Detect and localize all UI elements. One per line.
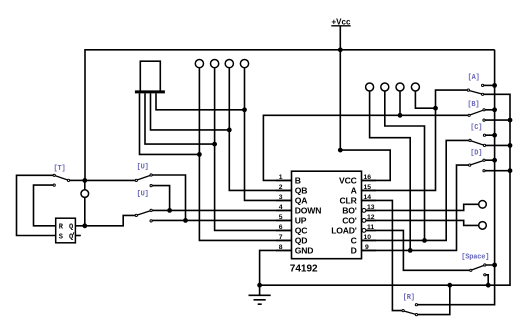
switch SU1 [U] top	[85, 174, 186, 221]
svg-text:QD: QD	[295, 235, 308, 245]
svg-text:2: 2	[279, 184, 283, 191]
chip U1 left pin numbers	[279, 174, 283, 251]
wire pin9 D net to switch SD	[362, 165, 469, 250]
node junction SA-bus1	[492, 83, 497, 88]
svg-text:CLR: CLR	[340, 195, 358, 205]
chip U1 74192 body	[292, 171, 362, 259]
switch ST [T]	[53, 174, 85, 186]
svg-text:[B]: [B]	[467, 101, 479, 109]
node junction rail/ST/SU1	[82, 178, 87, 183]
svg-text:[U]: [U]	[137, 164, 149, 172]
wire probe P3 top	[84, 180, 86, 189]
wire latch Q' stub	[75, 235, 80, 237]
wire lamp L2 to pin6 QC	[215, 68, 292, 231]
svg-text:4: 4	[279, 204, 283, 211]
svg-text:QC: QC	[295, 225, 308, 235]
svg-text:[Space]: [Space]	[461, 253, 489, 261]
wire RN1 pin4 to lamp L4 net	[156, 93, 245, 109]
wire RN1 pin1 to lamp L1 net	[140, 93, 200, 154]
wire indicator I2 to C net	[385, 91, 425, 240]
node junction QC net	[212, 142, 217, 147]
node junction SD-bus1	[492, 158, 497, 163]
svg-text:Q: Q	[69, 234, 73, 242]
svg-text:B: B	[295, 175, 301, 185]
wire +Vcc stem	[339, 26, 341, 50]
chip U1 right pin numbers	[364, 174, 375, 251]
node junction QB net	[227, 127, 232, 132]
node junction DOWN net	[167, 208, 172, 213]
svg-text:1: 1	[279, 174, 283, 181]
node junction B net / indicator I3	[398, 113, 403, 118]
chip U1 left labels	[295, 175, 321, 255]
svg-text:CO': CO'	[342, 215, 356, 225]
svg-text:VCC: VCC	[339, 175, 357, 185]
svg-text:[C]: [C]	[470, 124, 482, 132]
wire ST upper throw to latch S	[17, 175, 56, 235]
wire pin11 LOAD' net to switch SSpace	[366, 230, 469, 270]
svg-text:QA: QA	[295, 195, 308, 205]
svg-text:3: 3	[279, 194, 283, 201]
svg-text:[A]: [A]	[468, 74, 480, 82]
switch SU2 [U] bottom	[135, 209, 152, 222]
wire top +Vcc rail	[85, 50, 495, 181]
indicator I4 (A)	[411, 83, 419, 91]
wire indicator I3 to B net	[399, 91, 401, 115]
pin 11 bubble	[362, 229, 366, 233]
svg-text:74192: 74192	[290, 264, 318, 275]
pin 13 bubble	[362, 209, 366, 213]
node junction QA net	[242, 107, 247, 112]
svg-text:C: C	[351, 235, 357, 245]
svg-text:D: D	[351, 245, 357, 255]
wire pin4 DOWN net	[152, 209, 291, 211]
wire lamp L3 to pin2 QB	[229, 68, 291, 190]
svg-text:[U]: [U]	[137, 190, 149, 198]
svg-text:S: S	[59, 234, 63, 242]
switch SSpace [Space]	[470, 264, 495, 285]
node junction A net / indicator I4	[433, 106, 438, 111]
svg-text:5: 5	[279, 214, 283, 221]
svg-text:LOAD': LOAD'	[331, 225, 357, 235]
wire RN1 pin2 to lamp L2 net	[145, 93, 215, 144]
probe P1 BO'	[479, 201, 487, 209]
svg-text:7: 7	[279, 234, 283, 241]
node junction GND tee	[257, 283, 262, 288]
node junction UP net	[183, 218, 188, 223]
wire Vcc drop to pin16	[340, 50, 390, 181]
wire probe P3 bottom to Q	[84, 198, 86, 226]
wire ST lower throw to latch R	[34, 185, 56, 226]
indicator I2 (C)	[381, 83, 389, 91]
lamp L1	[195, 60, 203, 68]
svg-text:[T]: [T]	[54, 165, 66, 173]
chip U1 right pin stubs	[362, 180, 377, 250]
svg-text:UP: UP	[295, 215, 307, 225]
svg-text:[R]: [R]	[403, 294, 415, 302]
node junction Space-bus1	[492, 263, 497, 268]
switch SD [D]	[469, 159, 510, 172]
node junction SB-bus2	[508, 118, 513, 123]
svg-text:DOWN: DOWN	[295, 205, 321, 215]
chip U1 right labels	[331, 175, 357, 255]
wire pin8 GND net to ground and bus2	[260, 94, 510, 285]
wire lamp L1 to pin7 QD	[199, 68, 291, 241]
wire bus1 Vcc right vertical	[418, 50, 495, 305]
pin 12 bubble	[362, 219, 366, 223]
ground	[249, 285, 271, 304]
node junction D net / indicator I1	[408, 248, 413, 253]
lamp L4	[240, 60, 248, 68]
svg-text:BO': BO'	[342, 205, 356, 215]
node junction QD net	[197, 152, 202, 157]
node junction Q net	[82, 223, 87, 228]
power +Vcc symbol	[331, 18, 351, 27]
indicator I3 (B)	[396, 83, 404, 91]
node junction SD-bus2	[508, 168, 513, 173]
wire pin10 C net to switch SC	[362, 140, 469, 240]
wire pin14 CLR net to switch SR	[362, 200, 402, 310]
svg-text:[D]: [D]	[470, 149, 482, 157]
svg-text:Q: Q	[69, 223, 73, 231]
switch SA [A]	[467, 84, 494, 95]
wire pin5 UP net	[152, 219, 291, 221]
switch SR [R]	[402, 285, 450, 316]
node corner dot at (340,150)	[338, 148, 343, 153]
wire pin13 BO' to probe P1	[366, 204, 478, 210]
wire lamp L4 to pin3 QA	[245, 68, 292, 201]
lamp L2	[211, 60, 219, 68]
svg-text:16: 16	[364, 174, 372, 181]
node junction SC-bus2	[508, 143, 513, 148]
indicator I1 (D)	[366, 83, 374, 91]
svg-text:6: 6	[279, 224, 283, 231]
wire pin15 A net to switch SA	[362, 90, 468, 190]
lamp L3	[225, 60, 233, 68]
wire indicator I1 to D net	[370, 91, 411, 250]
chip U1 left pin stubs 1-8	[276, 180, 292, 250]
probe P2 CO'	[479, 222, 487, 230]
node junction SC-bus1	[492, 133, 497, 138]
node junction Space-gnd	[486, 283, 491, 288]
wire indicator I4 to A net	[415, 91, 435, 108]
wire latch Q output to SU2 common	[75, 215, 135, 225]
svg-text:A: A	[351, 185, 357, 195]
node junction Vcc-rail	[338, 47, 343, 52]
wire pin12 CO' to probe P2	[366, 220, 478, 225]
wire RN1 pin3 to lamp L3 net	[151, 93, 230, 129]
svg-text:GND: GND	[295, 245, 314, 255]
node junction C net / indicator I2	[422, 238, 427, 243]
latch U2 SR body	[56, 218, 76, 243]
node junction SB-bus1	[492, 107, 497, 112]
switch SB [B]	[468, 109, 510, 121]
probe P3 (T state)	[81, 190, 89, 198]
resistor network RN1 body	[135, 61, 165, 92]
switch SC [C]	[469, 134, 510, 146]
wire pin1 B net to switch SB	[263, 115, 468, 180]
node junction SR-gnd	[447, 283, 452, 288]
svg-text:QB: QB	[295, 185, 308, 195]
